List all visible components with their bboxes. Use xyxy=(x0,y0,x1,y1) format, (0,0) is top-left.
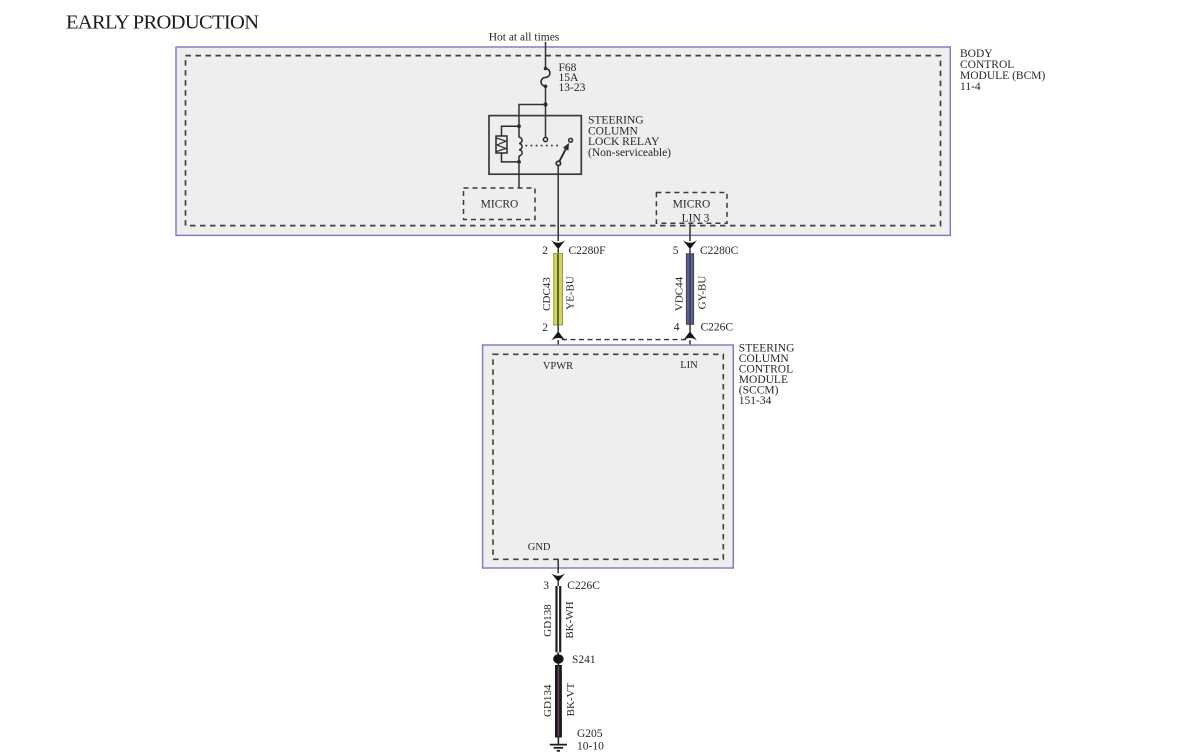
relay switch throw terminal xyxy=(569,138,573,142)
svg-text:11-4: 11-4 xyxy=(960,81,981,93)
wire label GD134 xyxy=(542,684,554,717)
wire coil to MICRO xyxy=(518,164,520,188)
node Hot at all times xyxy=(489,32,560,44)
SCCM pin label VPWR xyxy=(543,361,573,372)
svg-text:VPWR: VPWR xyxy=(543,361,573,372)
svg-text:MICRO: MICRO xyxy=(673,199,711,211)
BCM label xyxy=(960,48,1045,93)
wire MICRO LIN3 down to C2280C xyxy=(689,223,691,241)
wire CDC43 YE-BU xyxy=(554,249,563,332)
resistor bottom wire xyxy=(502,153,520,162)
relay coil bottom node xyxy=(517,160,521,164)
relay label xyxy=(588,115,671,159)
wire fuse to relay contact xyxy=(545,86,547,137)
wire junction to coil branch xyxy=(519,105,546,127)
svg-text:Hot at all times: Hot at all times xyxy=(489,32,560,44)
wire VDC44 GY-BU xyxy=(686,249,693,332)
svg-text:2: 2 xyxy=(542,322,548,334)
title EARLY PRODUCTION xyxy=(66,12,259,34)
svg-text:C2280F: C2280F xyxy=(569,245,606,257)
svg-text:S241: S241 xyxy=(572,654,596,666)
svg-text:G205: G205 xyxy=(577,728,603,740)
relay coil top node xyxy=(517,124,521,128)
wire label YE-BU xyxy=(564,276,576,310)
svg-text:CDC43: CDC43 xyxy=(541,277,553,311)
wire GND out of SCCM xyxy=(557,559,559,573)
wire label VDC44 xyxy=(674,276,686,311)
wire relay output down to C2280F xyxy=(557,166,559,241)
wire stubs into SCCM xyxy=(558,340,690,354)
junction node xyxy=(543,102,547,106)
relay box K1 xyxy=(489,116,581,175)
svg-text:C226C: C226C xyxy=(701,322,734,334)
relay switch pivot xyxy=(556,161,560,165)
wire label BK-VT xyxy=(565,682,577,716)
relay actuation dotted line xyxy=(526,145,560,147)
relay common contact terminal xyxy=(543,137,547,141)
svg-text:VDC44: VDC44 xyxy=(674,276,686,311)
svg-text:3: 3 xyxy=(543,580,549,592)
splice S241 xyxy=(553,654,596,666)
resistor (coil suppression) wires xyxy=(502,126,520,136)
connector pin label 2 xyxy=(542,322,548,334)
SCCM pin label LIN xyxy=(680,360,698,371)
module box BCM xyxy=(176,47,950,235)
wire label BK-WH xyxy=(564,601,576,638)
connector label C226C top xyxy=(674,322,734,334)
svg-text:YE-BU: YE-BU xyxy=(564,276,576,310)
relay switch arm xyxy=(558,143,569,163)
svg-text:LIN: LIN xyxy=(680,360,698,371)
connector label C2280C xyxy=(673,245,739,257)
connector arrow C226C pin 2 (up) xyxy=(551,331,565,340)
svg-text:BK-WH: BK-WH xyxy=(564,601,576,638)
svg-text:4: 4 xyxy=(674,322,680,334)
wire label CDC43 xyxy=(541,277,553,311)
SCCM pin label GND xyxy=(528,542,551,553)
relay coil xyxy=(519,126,522,162)
svg-text:GD138: GD138 xyxy=(542,604,554,637)
wire GD138 BK-WH xyxy=(557,581,561,655)
connector arrow C226C pin 4 (up) xyxy=(683,331,697,340)
svg-text:13-23: 13-23 xyxy=(559,82,586,94)
svg-text:GY-BU: GY-BU xyxy=(697,276,709,310)
SCCM inner dashed border xyxy=(493,354,723,559)
connector arrow C2280C pin 5 xyxy=(683,240,697,249)
svg-text:151-34: 151-34 xyxy=(739,395,772,407)
ground G205 xyxy=(550,738,567,751)
svg-text:5: 5 xyxy=(673,245,679,257)
module box SCCM xyxy=(483,345,734,568)
ground label G205 xyxy=(577,728,604,753)
MICRO LIN 3 box right xyxy=(656,193,727,225)
BCM inner dashed border xyxy=(186,56,941,226)
svg-text:GND: GND xyxy=(528,542,551,553)
connector arrow C226C pin 3 (down) xyxy=(551,573,565,582)
svg-text:2: 2 xyxy=(542,245,548,257)
connector label C226C bottom xyxy=(543,580,600,592)
wire GD134 BK-VT xyxy=(555,664,562,738)
svg-text:C226C: C226C xyxy=(567,580,600,592)
connector C226C dashed tie line xyxy=(562,339,687,341)
fuse F68 xyxy=(541,67,550,88)
svg-text:EARLY PRODUCTION: EARLY PRODUCTION xyxy=(66,12,259,34)
svg-text:BK-VT: BK-VT xyxy=(565,682,577,716)
svg-text:C2280C: C2280C xyxy=(700,245,739,257)
resistor (coil suppression) xyxy=(496,136,507,153)
svg-text:LIN 3: LIN 3 xyxy=(682,213,710,225)
fuse F68 value label xyxy=(559,62,586,94)
connector arrow C2280F pin 2 xyxy=(551,240,565,249)
connector label C2280F xyxy=(542,245,605,257)
svg-text:GD134: GD134 xyxy=(542,684,554,717)
SCCM label xyxy=(739,343,795,408)
wire battery feed into BCM xyxy=(545,42,547,69)
svg-text:MICRO: MICRO xyxy=(481,199,519,211)
wire label GY-BU xyxy=(697,276,709,310)
svg-text:(Non-serviceable): (Non-serviceable) xyxy=(588,147,671,159)
wire label GD138 xyxy=(542,604,554,637)
MICRO box left xyxy=(464,188,536,220)
svg-text:10-10: 10-10 xyxy=(577,741,604,753)
